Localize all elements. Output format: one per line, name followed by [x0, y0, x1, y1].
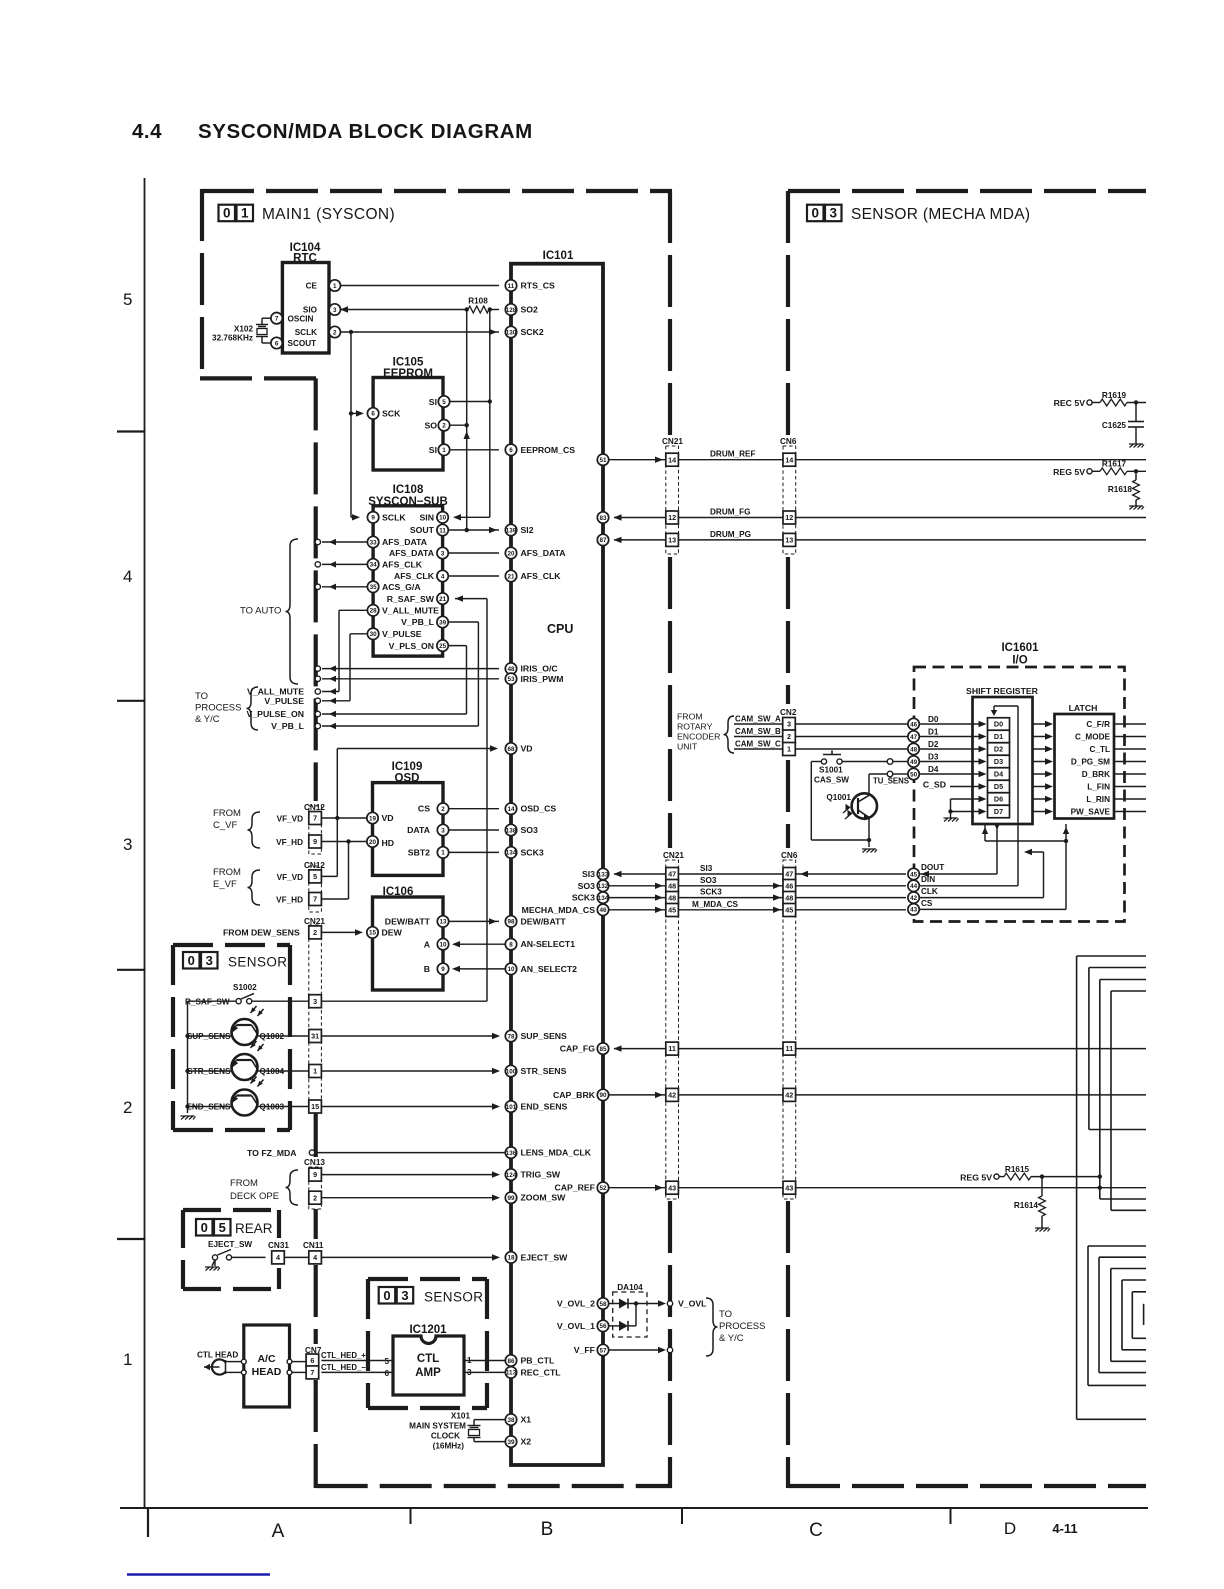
svg-text:2: 2 — [313, 1193, 317, 1202]
svg-text:0: 0 — [383, 1288, 390, 1303]
wire SI1 to EEPROM_CS — [450, 449, 499, 451]
wire S1001 ground loop — [811, 761, 821, 763]
wire SO3 — [609, 885, 666, 887]
wire VD net vertical — [336, 749, 338, 877]
pin IC109 CS 2 — [437, 803, 448, 814]
svg-text:25: 25 — [439, 643, 447, 650]
terminal on border — [329, 698, 336, 704]
svg-text:SENSOR: SENSOR — [424, 1290, 483, 1305]
svg-text:49: 49 — [910, 759, 918, 766]
svg-text:56: 56 — [599, 1323, 607, 1330]
wire STR_SENS to pin 100 — [321, 1070, 498, 1072]
svg-text:3: 3 — [206, 953, 213, 968]
pin IC101 ZOOM_SW 99 — [505, 1192, 516, 1203]
terminal on border — [329, 561, 336, 567]
IC IC108 SYSCON-SUB box — [373, 506, 443, 656]
svg-text:68: 68 — [507, 746, 515, 753]
svg-text:CE: CE — [306, 282, 318, 291]
wire SBT2 to SCK3 — [448, 851, 499, 853]
svg-text:101: 101 — [506, 1104, 517, 1111]
svg-text:78: 78 — [507, 1033, 515, 1040]
svg-text:IC101: IC101 — [543, 250, 574, 262]
wire CE to RTS_CS — [335, 285, 499, 287]
terminal on border — [329, 665, 336, 671]
svg-text:7: 7 — [275, 316, 279, 323]
svg-text:VF_VD: VF_VD — [277, 815, 303, 824]
footer rule — [127, 1573, 270, 1576]
shift register cell D6 — [988, 793, 1010, 806]
svg-text:A: A — [424, 939, 431, 949]
svg-text:V_PB_L: V_PB_L — [271, 721, 305, 731]
diode DA104 lower — [609, 1325, 619, 1327]
svg-text:D1: D1 — [928, 728, 939, 737]
svg-text:UNIT: UNIT — [677, 742, 698, 752]
label 01 MAIN1 (SYSCON) — [219, 205, 236, 222]
svg-text:SCK3: SCK3 — [572, 893, 595, 903]
pin IC106 DEW/BATT 13 — [437, 916, 448, 927]
svg-text:V_OVL_1: V_OVL_1 — [557, 1321, 595, 1331]
diode DA104 upper — [609, 1303, 619, 1305]
pin IC101 RTS_CS 11 — [505, 280, 516, 291]
wire CTL_HED- row — [321, 1371, 393, 1373]
svg-text:83: 83 — [599, 515, 607, 522]
crystal X101 MAIN SYSTEM CLOCK — [474, 1419, 505, 1421]
svg-text:46: 46 — [785, 882, 793, 891]
svg-text:4: 4 — [276, 1253, 280, 1262]
svg-text:D4: D4 — [994, 770, 1003, 779]
svg-text:V_FF: V_FF — [574, 1345, 595, 1355]
svg-text:IC1601: IC1601 — [1001, 642, 1039, 654]
capacitor C1625 — [1135, 403, 1137, 422]
svg-text:42: 42 — [668, 1091, 676, 1100]
svg-text:CAM_SW_B: CAM_SW_B — [735, 727, 781, 736]
svg-text:SCLK: SCLK — [382, 513, 406, 523]
svg-text:3: 3 — [441, 827, 445, 834]
pin IC104 SCOUT 6 — [271, 337, 282, 348]
svg-text:V_PULSE_ON: V_PULSE_ON — [247, 709, 304, 719]
wire V_PULSE down — [350, 633, 367, 635]
svg-text:9: 9 — [313, 837, 317, 846]
svg-text:132: 132 — [598, 883, 609, 890]
wire Q1001 emitter to ground — [868, 817, 870, 847]
svg-text:SENSOR (MECHA MDA): SENSOR (MECHA MDA) — [851, 206, 1030, 223]
IC IC101 CPU box — [511, 264, 603, 1465]
svg-text:TO AUTO: TO AUTO — [240, 606, 281, 617]
svg-text:CAS_SW: CAS_SW — [814, 776, 849, 785]
svg-text:9: 9 — [313, 1170, 317, 1179]
connector CN13 — [309, 1167, 322, 1209]
svg-text:SO3: SO3 — [578, 881, 596, 891]
pin IC101 SCK2 130 — [505, 326, 516, 337]
svg-text:V_PB_L: V_PB_L — [401, 617, 435, 627]
svg-text:113: 113 — [506, 1370, 517, 1377]
wire R_SAF_SW row to pin21 riser — [321, 1000, 487, 1002]
svg-text:4: 4 — [441, 573, 445, 580]
shift register cell D2 — [988, 743, 1010, 756]
svg-text:6: 6 — [310, 1356, 314, 1365]
terminal on border — [329, 688, 336, 694]
svg-text:AFS_CLK: AFS_CLK — [521, 571, 562, 581]
svg-text:EEPROM: EEPROM — [383, 368, 433, 380]
svg-text:AFS_CLK: AFS_CLK — [382, 560, 423, 570]
svg-text:48: 48 — [910, 746, 918, 753]
svg-text:LENS_MDA_CLK: LENS_MDA_CLK — [521, 1148, 592, 1158]
wire DRUM_PG — [614, 539, 666, 541]
svg-text:3: 3 — [401, 1288, 408, 1303]
wire AFS_DATA out — [322, 541, 367, 543]
svg-text:IRIS_PWM: IRIS_PWM — [521, 674, 564, 684]
svg-text:SUP_SENS: SUP_SENS — [187, 1032, 231, 1041]
svg-text:45: 45 — [785, 906, 793, 915]
svg-text:SO: SO — [424, 421, 437, 431]
connector CN21 right upper outline — [666, 446, 679, 554]
wire CAP_FG — [614, 1048, 666, 1050]
svg-text:VD: VD — [382, 813, 394, 823]
IC IC104 RTC box — [282, 263, 329, 354]
svg-text:CN13: CN13 — [304, 1158, 325, 1167]
wire IRIS_PWM out — [322, 678, 499, 680]
wire CAM_SW_B — [734, 736, 783, 738]
svg-text:1: 1 — [241, 206, 249, 221]
svg-text:SO3: SO3 — [700, 876, 717, 885]
svg-text:CTL_HED_+: CTL_HED_+ — [321, 1351, 366, 1360]
pin IC101 PB_CTL 86 — [505, 1355, 516, 1366]
svg-text:Q1002: Q1002 — [260, 1032, 285, 1041]
arrow shift register to latch — [1033, 761, 1051, 763]
svg-text:SO3: SO3 — [521, 825, 539, 835]
svg-text:V_PULSE: V_PULSE — [264, 696, 304, 706]
svg-text:43: 43 — [785, 1183, 793, 1192]
svg-text:MAIN1 (SYSCON): MAIN1 (SYSCON) — [262, 206, 395, 223]
pin IC108 V_PLS_ON 25 — [437, 640, 448, 651]
svg-text:R_SAF_SW: R_SAF_SW — [387, 594, 435, 604]
svg-text:0: 0 — [223, 206, 231, 221]
svg-text:VF_HD: VF_HD — [276, 838, 303, 847]
svg-text:DEW/BATT: DEW/BATT — [521, 916, 567, 926]
pin IC101 SI2 139 — [505, 524, 516, 535]
resistor R1618 — [1135, 471, 1137, 480]
wire R_SAF_SW into pin 21 — [455, 598, 487, 600]
svg-text:V_PULSE: V_PULSE — [382, 629, 422, 639]
wire REC_CTL — [464, 1371, 505, 1373]
connector CN21 right lower outline — [666, 860, 679, 1199]
pin IC101 SCK3 134 — [505, 847, 516, 858]
connector CN6 upper outline — [783, 446, 796, 554]
svg-text:CTL HEAD: CTL HEAD — [197, 1350, 238, 1359]
svg-text:134: 134 — [598, 895, 609, 902]
pin IC108 V_ALL_MUTE 28 — [367, 605, 378, 616]
pin IC101 AFS_DATA 20 — [505, 547, 516, 558]
svg-text:R1619: R1619 — [1102, 391, 1127, 400]
svg-text:13: 13 — [439, 919, 447, 926]
arrow shift register to latch — [1033, 736, 1051, 738]
svg-text:E_VF: E_VF — [213, 879, 237, 890]
pin IC108 V_PULSE 30 — [367, 628, 378, 639]
svg-text:VF_VD: VF_VD — [277, 873, 303, 882]
svg-text:DRUM_REF: DRUM_REF — [710, 450, 756, 459]
svg-text:14: 14 — [668, 455, 676, 464]
svg-text:B: B — [424, 964, 430, 974]
svg-text:MAIN SYSTEM: MAIN SYSTEM — [409, 1422, 466, 1431]
shift register box — [973, 697, 1033, 824]
svg-text:DA104: DA104 — [617, 1283, 643, 1292]
pin IC105 SCK 6 — [367, 408, 378, 419]
svg-text:5: 5 — [123, 290, 132, 309]
svg-text:SYSCON−SUB: SYSCON−SUB — [368, 496, 448, 508]
pin IC104 CE 1 — [329, 280, 340, 291]
svg-text:R1617: R1617 — [1102, 460, 1127, 469]
pin IC101 SO2 128 — [505, 304, 516, 315]
svg-text:2: 2 — [313, 928, 317, 937]
pin IC106 DEW 15 — [367, 927, 378, 938]
ground IC1601 input — [944, 818, 959, 822]
svg-text:128: 128 — [506, 307, 517, 314]
svg-text:V_ALL_MUTE: V_ALL_MUTE — [382, 606, 439, 616]
svg-text:D0: D0 — [994, 720, 1003, 729]
wire CAP_REF — [609, 1187, 666, 1189]
pin IC108 SIN 10 — [437, 512, 448, 523]
arrow shift register to latch — [1033, 723, 1051, 725]
wire AN_SELECT2 to B — [454, 968, 505, 970]
svg-text:REG 5V: REG 5V — [1053, 467, 1085, 477]
svg-text:15: 15 — [311, 1102, 319, 1111]
svg-text:98: 98 — [507, 919, 515, 926]
svg-text:1: 1 — [313, 1067, 317, 1076]
svg-text:PROCESS: PROCESS — [719, 1321, 765, 1332]
svg-text:X1: X1 — [521, 1415, 532, 1425]
pin IC104 SIO 3 — [329, 304, 340, 315]
svg-text:4: 4 — [313, 1253, 317, 1262]
svg-text:11: 11 — [668, 1044, 676, 1053]
IC IC105 EEPROM box — [373, 378, 443, 471]
svg-text:46: 46 — [599, 907, 607, 914]
svg-text:DRUM_PG: DRUM_PG — [710, 530, 751, 539]
svg-text:28: 28 — [370, 608, 378, 615]
wire Q1001 collector TU_SENS — [868, 774, 870, 795]
connector CN12 upper — [309, 806, 322, 854]
wire SO2 row — [450, 424, 467, 426]
pin IC101 AFS_CLK 21 — [505, 570, 516, 581]
svg-text:X102: X102 — [234, 325, 254, 334]
pin IC101 SUP_SENS 78 — [505, 1030, 516, 1041]
svg-text:C_F/R: C_F/R — [1086, 720, 1110, 729]
wire CLK — [908, 892, 919, 903]
svg-text:D3: D3 — [994, 757, 1003, 766]
svg-text:11: 11 — [439, 527, 446, 534]
svg-text:47: 47 — [668, 870, 676, 879]
svg-text:39: 39 — [507, 1439, 515, 1446]
svg-text:47: 47 — [910, 734, 918, 741]
svg-text:SIN: SIN — [420, 513, 434, 523]
terminal on border — [329, 539, 336, 545]
resistor R108 — [468, 306, 489, 313]
shift register cell D0 — [988, 718, 1010, 731]
pin IC101 85 CAP_FG — [597, 1043, 608, 1054]
svg-text:4: 4 — [123, 567, 132, 586]
shift register cell D4 — [988, 768, 1010, 781]
label 03 SENSOR — [183, 952, 200, 969]
arrow shift register to latch — [1033, 798, 1051, 800]
svg-text:DRUM_FG: DRUM_FG — [710, 508, 750, 517]
wire SCLK vertical to SCK and IC108 — [350, 332, 352, 517]
svg-text:TRIG_SW: TRIG_SW — [521, 1170, 561, 1180]
svg-text:REG 5V: REG 5V — [960, 1172, 992, 1182]
wire DATA to SO3 — [448, 829, 499, 831]
svg-text:3: 3 — [123, 835, 132, 854]
wire SO2 to SIO — [340, 309, 467, 311]
pin IC105 SI 1 — [438, 444, 449, 455]
wire PB_CTL — [464, 1360, 505, 1362]
arrow shift register to latch — [1033, 786, 1051, 788]
svg-text:CAP_FG: CAP_FG — [560, 1044, 595, 1054]
svg-text:14: 14 — [507, 806, 515, 813]
svg-text:D5: D5 — [994, 782, 1003, 791]
svg-text:21: 21 — [507, 573, 515, 580]
svg-text:AN-SELECT1: AN-SELECT1 — [521, 939, 576, 949]
ground R1614 — [1035, 1228, 1050, 1232]
wire SI3 — [614, 873, 666, 875]
svg-text:C_TL: C_TL — [1090, 745, 1110, 754]
vertical wire R108 right leg — [489, 310, 491, 518]
svg-text:SCK: SCK — [382, 408, 401, 418]
svg-text:CTL_HED_−: CTL_HED_− — [321, 1363, 366, 1372]
svg-text:SI3: SI3 — [582, 869, 595, 879]
svg-text:M_MDA_CS: M_MDA_CS — [692, 900, 738, 909]
shift register cell D7 — [988, 805, 1010, 818]
phototransistor Q1001 — [852, 793, 877, 818]
pin IC109 HD 20 — [367, 836, 378, 847]
connector CN12 lower — [309, 866, 322, 912]
svg-text:L_RIN: L_RIN — [1086, 795, 1110, 804]
svg-text:33: 33 — [370, 539, 378, 546]
svg-text:3: 3 — [787, 720, 791, 729]
svg-text:PW_SAVE: PW_SAVE — [1071, 808, 1111, 817]
svg-text:VF_HD: VF_HD — [276, 896, 303, 905]
svg-text:0: 0 — [188, 953, 195, 968]
svg-text:AMP: AMP — [415, 1367, 441, 1379]
svg-text:DEW: DEW — [382, 928, 403, 938]
pin IC108 SOUT 11 — [437, 524, 448, 535]
svg-text:D7: D7 — [994, 807, 1003, 816]
A/C HEAD box — [244, 1325, 290, 1407]
svg-text:5: 5 — [442, 399, 446, 406]
svg-text:D0: D0 — [928, 715, 939, 724]
svg-text:44: 44 — [910, 883, 918, 890]
pin IC101 134 SCK3 — [597, 892, 608, 903]
wire ZOOM_SW — [321, 1197, 498, 1199]
svg-text:STR_SENS: STR_SENS — [187, 1067, 231, 1076]
svg-text:D2: D2 — [994, 745, 1003, 754]
left margin ruler — [144, 178, 146, 1508]
svg-text:6: 6 — [275, 340, 279, 347]
svg-text:S1002: S1002 — [233, 983, 257, 992]
svg-text:IC106: IC106 — [383, 886, 414, 898]
svg-text:35: 35 — [370, 584, 378, 591]
board outline 03 SENSOR (CTL) dashed box — [368, 1277, 487, 1281]
svg-text:CAP_BRK: CAP_BRK — [553, 1090, 596, 1100]
wire ACS_G/A out — [322, 586, 367, 588]
pin IC101 VD 68 — [505, 743, 516, 754]
svg-text:CLK: CLK — [921, 887, 938, 896]
pin IC101 REC_CTL 113 — [505, 1367, 516, 1378]
svg-text:DIN: DIN — [921, 875, 935, 884]
svg-text:124: 124 — [506, 1172, 517, 1179]
svg-text:3: 3 — [333, 307, 337, 314]
IC IC1601 I/O dashed box — [914, 667, 1125, 922]
svg-text:DOUT: DOUT — [921, 863, 944, 872]
svg-text:& Y/C: & Y/C — [195, 714, 220, 725]
pin IC101 AN-SELECT1 8 — [505, 939, 516, 950]
svg-text:39: 39 — [439, 619, 447, 626]
pin IC101 AN_SELECT2 10 — [505, 963, 516, 974]
wire SCK3 — [609, 897, 666, 899]
phototransistor Q1003 END_SENS — [232, 1090, 258, 1116]
svg-text:TO FZ_MDA: TO FZ_MDA — [247, 1148, 297, 1158]
svg-text:(16MHz): (16MHz) — [433, 1442, 465, 1451]
svg-text:58: 58 — [599, 1301, 607, 1308]
svg-text:10: 10 — [439, 942, 447, 949]
svg-text:11: 11 — [785, 1044, 793, 1053]
svg-text:3: 3 — [441, 550, 445, 557]
svg-text:CAP_REF: CAP_REF — [554, 1183, 595, 1193]
arrow shift register to latch — [1033, 773, 1051, 775]
svg-text:C: C — [809, 1520, 823, 1541]
svg-text:99: 99 — [507, 1195, 515, 1202]
svg-text:DEW/BATT: DEW/BATT — [385, 917, 431, 927]
svg-text:D: D — [1004, 1519, 1016, 1538]
svg-text:11: 11 — [508, 283, 515, 290]
terminal on border — [329, 584, 336, 590]
svg-text:136: 136 — [506, 1150, 517, 1157]
svg-text:CN11: CN11 — [303, 1241, 324, 1250]
pin IC101 IRIS_PWM 53 — [505, 673, 516, 684]
pin IC108 V_PB_L 39 — [437, 616, 448, 627]
svg-text:10: 10 — [439, 515, 447, 522]
shift register cell D3 — [988, 755, 1010, 768]
sensor ground rail — [187, 1001, 189, 1113]
svg-text:Q1004: Q1004 — [260, 1067, 285, 1076]
svg-text:85: 85 — [599, 1046, 607, 1053]
pin IC101 51 — [597, 454, 608, 465]
wire SCLK to SCK2 — [340, 331, 499, 333]
pin IC108 SCLK 9 — [367, 512, 378, 523]
svg-text:CN12: CN12 — [304, 861, 325, 870]
label 03 SENSOR (MECHA MDA) — [807, 205, 824, 222]
pin IC108 AFS_CLK 4 — [437, 570, 448, 581]
svg-text:RTC: RTC — [293, 253, 317, 265]
board outline 03 SENSOR dashed box — [173, 943, 290, 947]
svg-text:C1625: C1625 — [1102, 421, 1127, 430]
wire DRUM_FG — [614, 517, 666, 519]
svg-text:4.4: 4.4 — [132, 120, 162, 143]
svg-text:CAM_SW_A: CAM_SW_A — [735, 715, 781, 724]
switch S1001 CAS_SW — [823, 754, 841, 756]
pin IC101 58 V_OVL_2 — [597, 1298, 608, 1309]
svg-text:R1614: R1614 — [1014, 1201, 1039, 1210]
svg-text:1: 1 — [441, 850, 445, 857]
wire ground to D6 D7 — [951, 798, 985, 800]
svg-text:100: 100 — [506, 1068, 517, 1075]
svg-text:CLOCK: CLOCK — [431, 1432, 460, 1441]
svg-text:CAM_SW_C: CAM_SW_C — [735, 740, 781, 749]
wire IRIS_O/C out — [322, 668, 499, 670]
pin IC101 57 V_FF — [597, 1344, 608, 1355]
svg-text:133: 133 — [598, 871, 609, 878]
pin IC101 LENS_MDA_CLK 136 — [505, 1147, 516, 1158]
latch box — [1055, 714, 1115, 819]
ground EJECT_SW — [212, 1260, 215, 1266]
svg-text:4-11: 4-11 — [1052, 1521, 1077, 1536]
